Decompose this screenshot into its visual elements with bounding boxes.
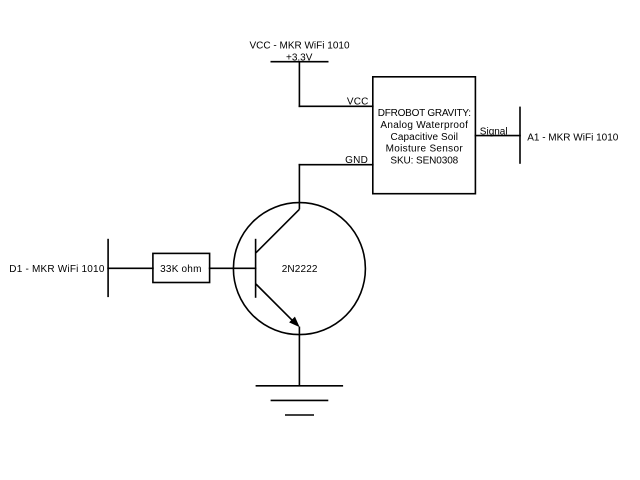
svg-text:Capacitive Soil: Capacitive Soil <box>391 132 459 143</box>
resistor R1 33K box <box>153 253 210 282</box>
svg-text:D1 - MKR WiFi 1010: D1 - MKR WiFi 1010 <box>9 264 105 275</box>
wire from sensor GND pin <box>299 164 374 166</box>
svg-text:DFROBOT GRAVITY:: DFROBOT GRAVITY: <box>378 108 471 119</box>
svg-text:33K ohm: 33K ohm <box>160 264 201 275</box>
wire emitter down to ground <box>298 327 300 386</box>
svg-text:VCC: VCC <box>347 97 369 108</box>
power rail VCC +3.3V <box>271 61 329 63</box>
sensor U1 DFROBOT GRAVITY box <box>373 77 476 194</box>
svg-text:2N2222: 2N2222 <box>282 264 318 275</box>
svg-text:Signal: Signal <box>480 126 508 137</box>
wire D1 to resistor <box>107 267 153 269</box>
sensor label text <box>378 108 471 167</box>
svg-text:A1 - MKR WiFi 1010: A1 - MKR WiFi 1010 <box>527 133 619 144</box>
wire resistor to base <box>209 267 257 269</box>
transistor collector diagonal <box>256 209 300 253</box>
svg-text:GND: GND <box>345 155 368 166</box>
svg-text:SKU: SEN0308: SKU: SEN0308 <box>390 156 458 167</box>
svg-text:VCC - MKR WiFi 1010: VCC - MKR WiFi 1010 <box>249 41 349 52</box>
ground symbol line 3 <box>285 414 314 416</box>
ground symbol line 1 <box>256 385 344 387</box>
ground symbol line 2 <box>271 399 329 401</box>
wire sensor Signal pin <box>475 135 521 137</box>
transistor Q1 circle <box>233 203 365 335</box>
svg-text:Analog Waterproof: Analog Waterproof <box>380 120 468 131</box>
transistor base bar <box>255 239 257 298</box>
terminal D1 bar <box>107 239 109 297</box>
terminal A1 bar <box>519 107 521 164</box>
transistor emitter diagonal <box>256 284 296 324</box>
wire GND down to transistor collector <box>298 164 300 209</box>
emitter arrowhead <box>290 317 299 326</box>
wire to sensor VCC pin <box>299 105 374 107</box>
svg-text:Moisture Sensor: Moisture Sensor <box>386 144 464 155</box>
wire from +3.3V rail down <box>298 62 300 107</box>
